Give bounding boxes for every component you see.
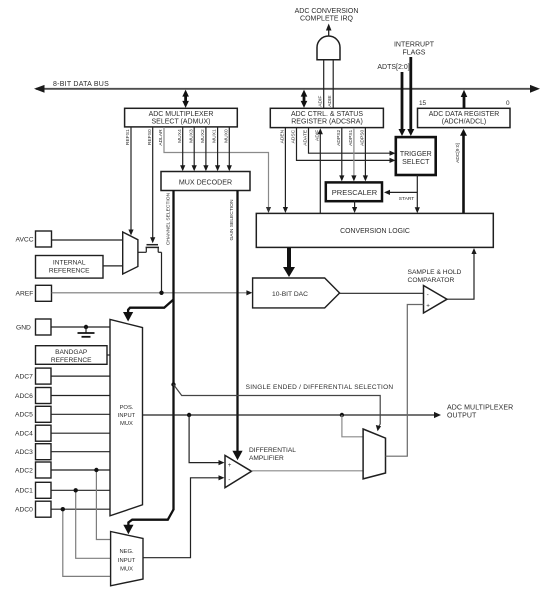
wire pos mux output (ADC multiplexer output) [143,405,514,420]
svg-text:MUX3: MUX3 [188,129,194,143]
svg-text:SAMPLE & HOLD: SAMPLE & HOLD [408,269,462,276]
svg-text:8-BIT DATA BUS: 8-BIT DATA BUS [53,81,109,88]
pad ADC5 [15,406,110,422]
mux output selector [363,429,385,479]
wire MUX2 to mux decoder [203,127,208,171]
wire GND to pos input mux [51,326,110,328]
svg-text:CHANNEL SELECTION: CHANNEL SELECTION [165,192,171,245]
wire MUX1 to mux decoder [215,127,220,171]
wire channel selection (thick) [165,191,173,511]
svg-text:AVCC: AVCC [16,237,34,244]
wire DAC to comparator minus [340,292,424,294]
svg-text:COMPARATOR: COMPARATOR [408,277,455,284]
svg-text:ADC MULTIPLEXER: ADC MULTIPLEXER [447,405,513,412]
wire neg mux output to differential amplifier minus input [143,475,225,558]
svg-text:ADPS2: ADPS2 [336,130,342,146]
wire ADC2 branch to neg input mux [96,470,110,540]
svg-text:10-BIT DAC: 10-BIT DAC [272,291,308,298]
label INTERRUPT FLAGS [394,42,435,57]
svg-text:GND: GND [16,325,31,332]
svg-text:-: - [228,476,230,483]
svg-text:TRIGGER: TRIGGER [400,151,432,158]
wire conversion logic to 10-bit DAC (thick) [283,248,295,278]
svg-text:ADTS[2:0]: ADTS[2:0] [377,64,409,71]
svg-text:ADC1: ADC1 [15,488,33,495]
svg-text:START: START [399,196,415,202]
wire to differential amplifier plus input [189,415,224,465]
svg-text:MUX: MUX [120,421,133,427]
svg-text:ADC6: ADC6 [15,393,33,400]
box ADMUX: ADC multiplexer select [125,108,238,127]
pad ADC6 [15,388,110,404]
transistor reference switch [138,245,162,293]
box bandgap reference [36,346,108,365]
pad ADC7 [15,368,110,384]
wire REFS0 to reference switch [150,127,155,243]
wire ADIE to gate [332,60,334,108]
svg-text:0: 0 [506,100,510,107]
wire bus-ADMUX double arrow [182,90,189,108]
svg-text:ADPS1: ADPS1 [348,130,354,146]
svg-text:ADC5: ADC5 [15,412,33,419]
wire channel selection branch to pos input mux [123,300,174,322]
svg-text:AMPLIFIER: AMPLIFIER [249,455,284,462]
svg-text:NEG.: NEG. [120,549,135,555]
node output line junction to output mux [340,413,344,417]
svg-text:ADC3: ADC3 [15,449,33,456]
mux negative input [111,532,143,586]
wire ADSC to trigger select [297,128,396,163]
wire ADLAR to conversion logic [164,127,271,213]
svg-text:ADC CTRL. & STATUS: ADC CTRL. & STATUS [291,111,363,118]
wire bus-ADCSRA double arrow [301,90,308,108]
label sample and hold comparator [408,269,462,284]
wire ADPS2 to prescaler [339,128,344,181]
svg-text:REFS1: REFS1 [125,129,131,145]
wire ADTS[2:0] to trigger select [399,72,406,136]
svg-text:AREF: AREF [16,291,34,298]
svg-text:PRESCALER: PRESCALER [332,188,378,197]
wire MUX0 to mux decoder [227,127,232,171]
svg-text:MUX1: MUX1 [212,129,218,143]
wire conversion logic to ADIF flag [318,128,323,214]
interrupt AND gate [295,8,359,60]
wire output mux to comparator plus input [386,305,424,457]
svg-text:ADC MULTIPLEXER: ADC MULTIPLEXER [149,111,214,118]
svg-text:MUX4: MUX4 [177,129,183,143]
wire differential amplifier output to output mux [252,470,364,472]
svg-text:15: 15 [419,100,427,107]
svg-text:MUX2: MUX2 [200,129,206,143]
block 10-bit DAC [253,278,340,308]
wire channel selection end to neg input mux [123,510,173,535]
svg-text:SELECT (ADMUX): SELECT (ADMUX) [152,119,211,126]
wire ADC[9:0] conversion logic to data register [455,129,467,214]
mux positive input [110,319,143,515]
svg-text:ADLAR: ADLAR [158,129,164,146]
wire MUX4 to mux decoder [180,127,185,171]
pad AVCC [36,231,52,247]
node GND junction [84,325,88,329]
node ADC0 junction [61,507,65,511]
svg-text:MUX0: MUX0 [223,129,229,143]
wire internal reference to reference mux [103,265,123,267]
svg-text:-: - [427,291,429,298]
comparator sample/hold [424,286,448,314]
box ADC data register (ADCH/ADCL) [418,100,511,128]
node AREF junction [159,291,163,295]
svg-text:ADC DATA REGISTER: ADC DATA REGISTER [429,111,500,118]
wire REFS1 to reference mux [128,127,133,236]
wire ADPS0 to prescaler [363,128,368,181]
svg-text:ADIF: ADIF [318,96,324,107]
svg-text:MUX DECODER: MUX DECODER [179,178,232,186]
pad AREF [36,285,52,301]
wire comparator output to conversion logic [447,248,477,299]
wire ADC0 branch to neg input mux [63,509,111,576]
box conversion logic [256,213,493,247]
node output line junction to diff amp [187,413,191,417]
wire ADIF to gate [323,60,325,108]
pad ADC0 [15,501,110,517]
svg-text:ADATE: ADATE [303,129,309,146]
wire ADPS1 to prescaler [351,128,356,181]
svg-text:ADC7: ADC7 [15,373,33,380]
svg-text:ADIE: ADIE [327,95,333,107]
node ADC2 junction [94,468,98,472]
wire output line branch to output mux [342,415,363,437]
svg-text:FLAGS: FLAGS [403,49,426,56]
svg-text:ADC0: ADC0 [15,507,33,514]
ground symbol [78,327,95,337]
svg-text:INPUT: INPUT [118,413,136,419]
svg-text:(ADCH/ADCL): (ADCH/ADCL) [442,119,486,126]
amplifier differential [225,447,296,488]
wire AREF to 10-bit DAC [52,290,253,295]
svg-text:MUX: MUX [120,567,133,573]
box MUX decoder [161,172,250,191]
wire ADEN to conversion logic [283,128,288,213]
svg-text:ADSC: ADSC [291,129,297,143]
svg-text:+: + [426,302,430,309]
pad ADC4 [15,425,110,441]
box prescaler [326,182,382,201]
pad ADC2 [15,462,110,478]
svg-text:REGISTER (ADCSRA): REGISTER (ADCSRA) [291,119,363,126]
svg-text:CONVERSION LOGIC: CONVERSION LOGIC [340,228,410,235]
box internal reference [36,256,104,279]
svg-text:GAIN SELECTION: GAIN SELECTION [229,199,235,241]
wire gain selection (thick) [229,191,243,461]
svg-text:+: + [228,462,232,469]
svg-text:OUTPUT: OUTPUT [447,412,477,419]
svg-text:INTERNAL: INTERNAL [53,260,86,267]
mux reference selector [123,232,138,274]
svg-text:REFS0: REFS0 [147,129,153,145]
svg-text:ADEN: ADEN [279,129,285,143]
svg-text:COMPLETE IRQ: COMPLETE IRQ [300,16,353,23]
wire MUX3 to mux decoder [192,127,197,171]
node ADC1 junction [74,488,78,492]
svg-text:ADC4: ADC4 [15,431,33,438]
box trigger select [396,137,436,175]
wire single ended / differential selection [171,382,393,431]
svg-text:INPUT: INPUT [118,558,136,564]
wire ADATE to trigger select [309,128,396,156]
svg-text:ADC[9:0]: ADC[9:0] [455,142,461,162]
wire ADC1 branch to neg input mux [76,490,111,558]
svg-text:REFERENCE: REFERENCE [51,357,92,364]
svg-text:ADC CONVERSION: ADC CONVERSION [295,8,359,15]
svg-text:REFERENCE: REFERENCE [49,268,90,275]
pad ADC3 [15,444,110,460]
wire AVCC to reference mux [52,239,123,241]
pad GND [36,319,52,335]
wire ADC data register to bus [461,90,468,108]
svg-text:ADC2: ADC2 [15,467,33,474]
wire trigger select START to conversion logic and prescaler [384,175,420,213]
svg-text:BANDGAP: BANDGAP [55,349,88,356]
wire 8-bit data bus [34,81,540,93]
svg-text:DIFFERENTIAL: DIFFERENTIAL [249,447,296,454]
svg-text:POS.: POS. [120,405,134,411]
svg-text:SELECT: SELECT [402,159,430,166]
svg-text:SINGLE ENDED / DIFFERENTIAL SE: SINGLE ENDED / DIFFERENTIAL SELECTION [246,384,394,391]
pad ADC1 [15,482,110,498]
wire bandgap to pos input mux [107,354,110,356]
svg-text:ADPS0: ADPS0 [359,130,365,146]
wire interrupt flags to trigger select [407,57,414,136]
box ADCSRA: ADC control and status register [270,108,383,127]
svg-text:INTERRUPT: INTERRUPT [394,42,435,49]
wire prescaler to conversion logic [352,200,357,213]
